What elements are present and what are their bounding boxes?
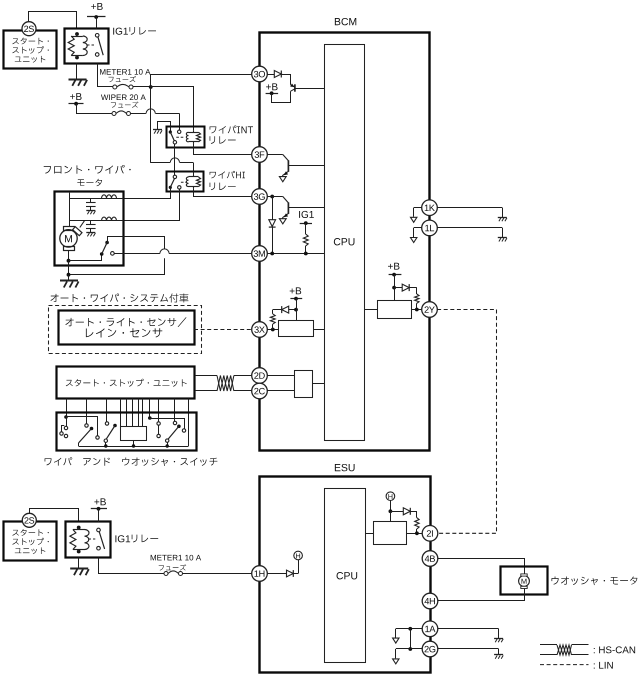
node 2I [422, 526, 438, 542]
motor washer M [519, 574, 530, 589]
label HS-CAN [594, 646, 635, 653]
wire feed to HI relay coil [151, 163, 194, 172]
relay INT coil+resistor [186, 130, 200, 144]
box CPU (BCM) [325, 45, 365, 441]
hop WIPER line over METER feed [146, 109, 155, 114]
power +B (3O transistor) [266, 83, 291, 102]
wire junction to 3O [151, 75, 252, 88]
node junction 3G [270, 195, 274, 199]
wires start-stop unit to switch [67, 399, 189, 447]
node 2D [252, 368, 268, 384]
wire 1L to ground [437, 228, 502, 238]
wire park NO contact to 3M [114, 253, 252, 255]
wire interface to CPU (3X) [314, 329, 325, 331]
box washer motor [501, 567, 548, 595]
wire 1A internal [396, 627, 423, 638]
box ESU module [260, 477, 431, 673]
wire 2S to IG1 relay coil [29, 12, 77, 30]
power +B (relay U-B) [91, 498, 107, 522]
wire +B to WIPER fuse [77, 104, 113, 114]
node 1L [422, 220, 438, 236]
wire 4B to washer motor [438, 559, 525, 576]
fuse METER1 10A (lower) [164, 571, 183, 576]
label BCM [335, 18, 356, 25]
relay U-A switch contacts [87, 34, 104, 57]
node 1H [252, 566, 268, 582]
capacitor motor high + ground [86, 221, 96, 237]
arrow to other system (3F) [279, 177, 286, 182]
switch right rail [148, 416, 186, 432]
label wiper HI relay [210, 171, 245, 190]
power +B (relay U-A) [87, 3, 106, 28]
transistor 3G wiper-HI driver [267, 197, 324, 219]
arrow to other (1L) [411, 238, 417, 243]
box start-stop unit (upper) [4, 31, 57, 69]
node motor ground junction [67, 273, 71, 277]
box start-stop unit (lower) [4, 522, 57, 561]
ground (1L) [498, 238, 507, 242]
relay U-A coil+resistor [68, 32, 87, 59]
ground (INT relay) [153, 130, 162, 134]
ground (motor) [60, 281, 79, 288]
wire HI common to motor low [70, 189, 171, 199]
wire fuse to junction [133, 86, 151, 88]
switch lo contact [104, 422, 117, 446]
wire H to junction (2I) [390, 501, 392, 512]
arrow to other (2G) [393, 659, 399, 664]
node 2C [252, 383, 268, 399]
wire motor brush to common node [68, 250, 70, 261]
box 3X interface [279, 321, 314, 337]
label METER1 10 A fuse [100, 69, 150, 82]
wire to motor ground [68, 275, 70, 281]
relay U-B switch contacts [88, 528, 105, 550]
label wiper INT relay [210, 125, 253, 143]
transistor 3O (pnp high-side) [290, 74, 324, 92]
wire 2G to ground [438, 649, 499, 655]
box start-stop unit (mid) [57, 367, 195, 399]
switch mist cluster [60, 415, 99, 439]
motor M armature [60, 221, 85, 251]
diode LIN pullup (BCM) [394, 284, 417, 291]
power +B (WIPER fuse) [69, 93, 84, 105]
power +B (3X) [290, 287, 303, 309]
legend HS-CAN twisted pair [540, 645, 589, 656]
wire common to park switch pivot [69, 254, 102, 260]
box LIN transceiver (BCM) [365, 288, 422, 319]
resistor LIN pullup (BCM) [415, 288, 419, 310]
node junction LIN pullup (ESU) [389, 509, 393, 513]
ground (relay U-A) [69, 80, 88, 86]
arrow to other (1K) [411, 217, 417, 222]
wire LIN bus dashed 2Y to 2I [437, 310, 496, 534]
wire WIPER fuse to INT relay switch [131, 114, 180, 131]
wire HI NO to motor high [70, 189, 180, 221]
wire coil to ground (lower) [78, 558, 80, 569]
diode 3X clamp [273, 306, 296, 313]
net H circle (1H) [294, 551, 303, 560]
relay wiper-HI box [167, 172, 204, 192]
net H circle (2I) [386, 492, 395, 501]
box CAN transceiver [267, 371, 324, 398]
arrow to other system (3G) [279, 219, 286, 224]
wire ground to INT common [158, 122, 171, 132]
capacitor motor low + ground [86, 199, 96, 215]
switch washer blade [166, 421, 181, 446]
diode 3O input [267, 71, 291, 78]
transistor 3F wiper-INT driver [267, 155, 324, 177]
label washer motor [551, 577, 637, 586]
wire 2S to IG1 relay (lower) [30, 509, 79, 522]
node 2S (start-stop unit pin) [22, 22, 36, 36]
node 3G [252, 189, 268, 205]
inductor motor low line [70, 195, 124, 199]
diode 3G clamp to 3M [269, 197, 276, 254]
label IG1 relay (upper) [113, 27, 156, 35]
wire INT switch to HI relay [174, 144, 176, 177]
wire 1L internal arrow [414, 228, 422, 238]
relay U-A IG1 relay (upper) box [65, 29, 109, 64]
legend LIN dashed [540, 664, 589, 666]
ground (1K) [498, 218, 507, 222]
node 2G [422, 641, 438, 657]
diode 1H input [267, 570, 298, 577]
switch park position [100, 241, 114, 256]
diode LIN pullup (ESU) [390, 508, 417, 515]
label METER1 fuse (lower) [151, 555, 201, 571]
node 1A [422, 621, 438, 637]
relay INT switch [169, 130, 184, 144]
dashed box auto wiper option [49, 306, 202, 354]
box auto light / rain sensor [59, 311, 195, 345]
label front wiper motor [44, 165, 131, 186]
wire INT coil to 3F [194, 144, 252, 155]
label IG1 relay (lower) [115, 535, 158, 543]
node 3O [252, 66, 268, 82]
label wiper and washer switch [45, 457, 218, 466]
wire relay U-B switch to fuse [99, 558, 165, 574]
switch int volume contacts [157, 422, 160, 438]
label LIN [594, 662, 613, 669]
node 4H [422, 593, 438, 609]
node junction METER1 feed [149, 85, 153, 89]
relay wiper-INT box [167, 127, 205, 148]
node motor common [67, 259, 71, 263]
node 3F [252, 147, 268, 163]
label auto-wiper-system [50, 293, 188, 302]
arrow to other (1A) [393, 638, 399, 643]
wire 1A to ground [438, 629, 499, 639]
wire METER junction to INT relay coil [151, 87, 194, 131]
fuse METER1 10A [113, 84, 133, 89]
wire to H net (1H) [298, 560, 300, 574]
node 2Y [422, 302, 438, 318]
box front wiper motor [55, 192, 124, 266]
box washer switch block [121, 427, 147, 447]
relay HI coil+resistor [186, 175, 200, 189]
wire HI coil top stub [193, 172, 195, 176]
inductor motor high line [70, 217, 124, 221]
resistor 3X pullup [270, 310, 275, 330]
wire METER junction down-left feed [150, 87, 152, 163]
node 1K [422, 200, 438, 216]
wire junction to interface top [296, 310, 298, 320]
node junction LIN pullup (BCM) [392, 286, 396, 290]
wire park upper contact to ground loop [69, 237, 165, 275]
label WIPER 20 A fuse [101, 94, 146, 107]
label ESU [335, 464, 355, 471]
wire washer motor to 4H [438, 589, 525, 601]
twisted pair to 2D/2C [195, 376, 252, 392]
wire 1K internal arrow [414, 208, 422, 217]
node 3M [252, 246, 268, 262]
wire 1A-2G link [408, 629, 412, 651]
switch off/int blade [79, 424, 94, 443]
fuse WIPER 20A [112, 111, 131, 116]
wire 2G internal [396, 649, 423, 659]
wire coil to ground [76, 64, 78, 80]
node 4B [422, 551, 438, 567]
wire switch common rail [79, 443, 189, 448]
relay HI switch [169, 175, 187, 189]
wire 3X to interface box [267, 328, 278, 332]
hop 3M line over ground loop [160, 249, 169, 254]
node junction 3X pullup [294, 308, 298, 312]
resistor LIN pullup (ESU) [415, 511, 419, 533]
net IG1 pullup [299, 211, 314, 254]
ground (relay U-B) [70, 569, 89, 576]
relay U-B IG1 relay (lower) box [66, 522, 111, 558]
node 2S (lower) [22, 513, 36, 527]
box LIN transceiver (ESU) [366, 511, 423, 544]
box wiper and washer switch [57, 413, 197, 451]
wire fuse to 1H [183, 573, 253, 575]
power +B (LIN 2Y) [388, 263, 401, 288]
wire HI coil to 3G [194, 189, 252, 197]
wire relay switch to METER1 fuse [98, 64, 113, 87]
hop HI-coil feed over INT switch wire [170, 158, 179, 163]
ground (1A) [494, 639, 503, 643]
wire dashed sensor to 3X [194, 329, 252, 331]
node 3X [252, 322, 268, 338]
wire motor internal left vertical [69, 193, 71, 227]
box CPU (ESU) [325, 489, 366, 663]
box BCM module [260, 33, 430, 451]
relay U-B coil+resistor [70, 526, 89, 554]
wire motor common to ground [68, 261, 70, 275]
wire 1K to ground [437, 208, 502, 218]
ground (2G) [494, 655, 503, 659]
wire 3M to CPU [267, 252, 324, 256]
